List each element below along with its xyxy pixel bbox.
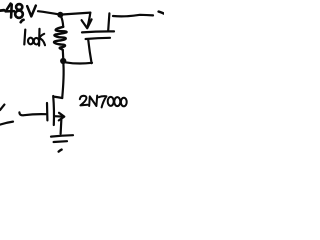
ground bar 2 xyxy=(54,140,67,143)
node junction dot at resistor top xyxy=(57,12,63,18)
Q2 source wire down to ground xyxy=(59,119,62,134)
Q2 gate bar xyxy=(46,103,49,120)
transistor Q2 2N7000 xyxy=(19,96,64,134)
R1 bottom lead xyxy=(62,50,65,58)
wire gate arrow shaft down to Q1 gate xyxy=(88,13,91,27)
Q1 drain lead vertical xyxy=(88,40,91,64)
wire stub at left edge upper xyxy=(0,105,4,110)
wire from bottom node right to Q1 drain xyxy=(66,62,92,63)
wire from -48V to gate arrow corner xyxy=(38,11,90,14)
R1 zigzag body xyxy=(54,27,67,50)
value label 100k xyxy=(24,29,45,46)
ground bar 3 tick xyxy=(59,150,62,152)
Q1 source lead vertical xyxy=(108,13,109,30)
resistor R1 100k xyxy=(54,16,67,58)
wire from Q1 source to right edge xyxy=(113,15,153,17)
R1 top lead xyxy=(61,16,63,27)
Q2 source lead with arrow xyxy=(54,115,63,118)
ground bar 1 xyxy=(51,135,73,136)
part label 2N7000 xyxy=(80,96,127,108)
Q2 source arrowhead pointing right xyxy=(59,113,65,121)
Q1 gate bar xyxy=(82,31,114,32)
ground xyxy=(51,135,73,151)
net label -48V xyxy=(0,4,36,23)
wire stub at left edge lower xyxy=(0,122,13,125)
Q2 gate lead xyxy=(19,112,46,115)
Q2 channel bar xyxy=(52,96,55,125)
Q1 channel bar xyxy=(86,38,110,39)
transistor Q1 P-channel MOSFET xyxy=(82,13,114,63)
Q2 drain lead xyxy=(54,97,63,98)
wire from bottom node down to Q2 drain xyxy=(62,64,63,98)
gate arrowhead pointing down xyxy=(82,19,92,28)
node junction dot at resistor bottom xyxy=(60,58,66,64)
wire dash at right edge xyxy=(159,12,164,14)
